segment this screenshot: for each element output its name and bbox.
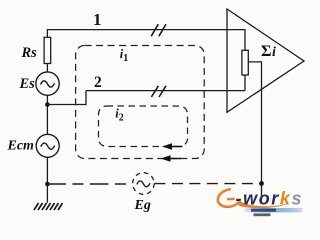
break mark on wire 1 <box>151 24 166 36</box>
wire (bottom dashed return, right of Eg) <box>154 183 261 185</box>
svg-text:Eg: Eg <box>134 198 151 213</box>
wire (resistor bottom lead to wire 2) <box>244 75 246 91</box>
svg-text:-works: -works <box>236 189 304 209</box>
logo blue bar <box>244 208 302 212</box>
svg-text:Ecm: Ecm <box>7 139 35 154</box>
wire (output tap down to bottom line) <box>248 62 261 197</box>
current loop i1 (dashed) <box>76 46 205 159</box>
svg-text:Σi: Σi <box>261 43 276 60</box>
current loop i2 (dashed) <box>99 106 188 147</box>
logo e crossbar <box>227 198 235 201</box>
node (bottom right junction) <box>259 181 264 186</box>
break mark on wire 2 <box>151 86 166 97</box>
svg-text:1: 1 <box>93 10 102 29</box>
source Es <box>36 72 59 95</box>
wire (junction to ground) <box>46 184 48 203</box>
wire 1 (top line from source column to summing resistor) <box>47 30 245 51</box>
source Ecm <box>36 134 59 157</box>
logo sub text <box>254 213 271 216</box>
wire (junction to step of wire 2) <box>47 91 86 105</box>
node (junction below Es) <box>45 102 50 107</box>
resistor (summing input resistor inside op-amp) <box>242 50 248 75</box>
source Eg (dashed generator) <box>133 173 155 195</box>
node (bottom left junction) <box>45 182 50 187</box>
arrow (i2 direction) <box>162 143 183 150</box>
e-works watermark logo <box>218 189 303 217</box>
logo swoosh e ring <box>218 189 240 207</box>
wire 2 <box>86 90 245 92</box>
svg-text:1: 1 <box>123 53 128 64</box>
arrow (i1 direction) <box>161 155 182 162</box>
wire (Es to Ecm) <box>46 95 48 134</box>
wire (Rs to Es) <box>46 64 48 73</box>
op-amp (summing amplifier) <box>227 9 304 112</box>
svg-text:2: 2 <box>119 112 124 123</box>
svg-text:Es: Es <box>19 76 36 92</box>
ground <box>34 203 63 210</box>
logo swoosh tail <box>236 201 291 208</box>
svg-text:Rs: Rs <box>21 45 38 61</box>
resistor Rs <box>44 37 51 63</box>
svg-text:2: 2 <box>94 74 102 91</box>
wire (bottom dashed return, left of Eg) <box>47 183 132 185</box>
wire (Ecm to bottom junction) <box>46 157 48 184</box>
